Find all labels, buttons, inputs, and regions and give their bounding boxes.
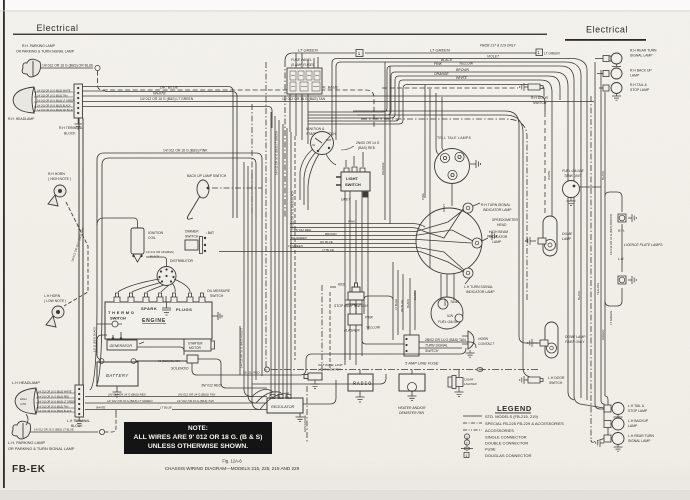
ground: engine top — [162, 296, 171, 315]
svg-text:14/ 012 OR 16 G (B&S) BLACK: 14/ 012 OR 16 G (B&S) BLACK — [291, 191, 295, 230]
flasher — [344, 314, 381, 333]
svg-text:14/ 012 OR 16 G (B&S) TAN: 14/ 012 OR 16 G (B&S) TAN — [282, 97, 326, 101]
svg-text:( HIGH NOTE ): ( HIGH NOTE ) — [48, 177, 71, 181]
ignition and starter switch — [306, 127, 336, 155]
svg-text:2B/02 OR 14 G (B&S) TAN: 2B/02 OR 14 G (B&S) TAN — [425, 338, 466, 342]
R.H. parking lamp labels — [16, 44, 94, 68]
spark plugs — [114, 293, 193, 302]
svg-text:MOTOR: MOTOR — [189, 346, 202, 350]
svg-text:LAMP: LAMP — [628, 424, 638, 428]
svg-text:STOP LAMP SWITCH: STOP LAMP SWITCH — [334, 304, 368, 308]
wire: accessories dash-dot vertical left of stop switch — [322, 285, 330, 380]
svg-text:SWITCH: SWITCH — [549, 381, 563, 385]
distributor — [157, 259, 193, 286]
svg-text:FB/EF ONLY: FB/EF ONLY — [565, 340, 585, 344]
back up lamp switch — [187, 174, 227, 219]
svg-text:LT GREEN: LT GREEN — [430, 48, 450, 53]
svg-text:R.H DOOR: R.H DOOR — [531, 96, 549, 100]
svg-text:DK BLUE: DK BLUE — [320, 240, 334, 244]
ground: regulator — [296, 413, 305, 422]
svg-text:2N/ 012 OR 14 G (B&S) TAN: 2N/ 012 OR 14 G (B&S) TAN — [177, 392, 216, 396]
R.H terminal block — [59, 84, 83, 136]
svg-text:HIGH BEAM: HIGH BEAM — [489, 230, 508, 234]
svg-text:ORANGE: ORANGE — [434, 72, 449, 76]
svg-text:TANK: TANK — [450, 300, 460, 304]
svg-text:BLACK: BLACK — [413, 291, 417, 300]
ground: R.H terminal block — [75, 118, 83, 129]
svg-text:HEAD: HEAD — [497, 223, 507, 227]
svg-text:DK BLUE: DK BLUE — [400, 300, 404, 312]
svg-text:WHITE: WHITE — [547, 171, 551, 180]
svg-text:SWITCH: SWITCH — [533, 101, 547, 105]
starter motor — [184, 339, 215, 351]
svg-text:14/ 012 OR 16 G (B&S) DK BLUE: 14/ 012 OR 16 G (B&S) DK BLUE — [37, 109, 73, 112]
svg-text:REGULATOR: REGULATOR — [271, 405, 295, 409]
svg-text:14/ 012 OR 16 G (B&S) LT GREEN: 14/ 012 OR 16 G (B&S) LT GREEN — [38, 400, 76, 403]
svg-text:5 AMP LINE FUSE: 5 AMP LINE FUSE — [405, 361, 439, 366]
svg-text:DOUGLAS CONNECTOR: DOUGLAS CONNECTOR — [485, 453, 531, 458]
svg-text:YELLOW: YELLOW — [366, 326, 381, 330]
svg-text:WHITE: WHITE — [456, 76, 468, 80]
svg-text:BROWN: BROWN — [456, 68, 470, 72]
wire: line fuse run — [265, 367, 540, 372]
svg-text:SWITCH: SWITCH — [185, 235, 199, 239]
svg-text:14/ 012 OR 16 G (B&S) VIOLET: 14/ 012 OR 16 G (B&S) VIOLET — [240, 328, 244, 368]
svg-text:ACCESSORIES: ACCESSORIES — [485, 428, 514, 433]
svg-text:14/ 012 OR 16 G (B&S) LT GREEN: 14/ 012 OR 16 G (B&S) LT GREEN — [140, 97, 194, 101]
svg-text:1: 1 — [466, 454, 468, 458]
svg-text:ORANGE: ORANGE — [381, 162, 385, 175]
wire: L.H parking lamp feed — [30, 414, 116, 435]
wire: cluster to fuel gauge — [430, 202, 454, 300]
svg-text:LAMP: LAMP — [562, 237, 572, 241]
svg-text:LIGHT: LIGHT — [346, 176, 359, 181]
svg-text:SIGNAL LAMP: SIGNAL LAMP — [630, 54, 653, 58]
svg-text:OR PARKING & TURN SIGNAL LAMP: OR PARKING & TURN SIGNAL LAMP — [8, 446, 75, 451]
svg-text:BLACK: BLACK — [601, 170, 605, 180]
svg-text:CIGAR: CIGAR — [464, 378, 473, 382]
svg-text:INDICATOR LAMP: INDICATOR LAMP — [466, 290, 495, 294]
L.H license plate lamp — [618, 257, 636, 284]
svg-text:PINK: PINK — [348, 220, 356, 224]
svg-text:L.H HORN: L.H HORN — [44, 294, 61, 298]
L.H rear turn signal lamp — [604, 433, 654, 452]
ground: L.H terminal block — [76, 417, 84, 426]
wire: dash band into cluster — [219, 209, 473, 271]
svg-text:BLOCK: BLOCK — [71, 424, 83, 428]
ignition coil — [131, 228, 174, 262]
wire: generator leads — [97, 332, 184, 359]
svg-text:CHASSIS WIRING DIAGRAM—MODEL: CHASSIS WIRING DIAGRAM—MODELS 215, 225, … — [165, 466, 300, 471]
svg-text:14/ 012 OR 16 G (B&S) TAN: 14/ 012 OR 16 G (B&S) TAN — [177, 399, 215, 403]
header Electrical right — [565, 25, 646, 41]
svg-text:R.H.: R.H. — [618, 229, 625, 233]
svg-text:STOP LAMP: STOP LAMP — [630, 88, 650, 92]
R.H license plate lamp — [618, 214, 636, 233]
solenoid — [158, 355, 198, 371]
svg-text:LT GREEN: LT GREEN — [609, 311, 613, 325]
regulator — [267, 395, 303, 414]
svg-text:PINK: PINK — [434, 62, 443, 66]
instrument cluster circle — [416, 203, 497, 278]
wire labels on main runs — [140, 85, 339, 153]
wire: ignition switch feeds — [300, 149, 336, 210]
wire: regulator to right trunk — [303, 380, 336, 442]
svg-text:HEATER AND/OR: HEATER AND/OR — [398, 406, 426, 410]
svg-text:14/ 012 OR 16 G (B&S) LT GREEN: 14/ 012 OR 16 G (B&S) LT GREEN — [107, 399, 153, 403]
svg-text:SWITCH: SWITCH — [110, 316, 126, 321]
svg-text:LT GREEN: LT GREEN — [298, 48, 318, 53]
svg-text:35/ 012 RED: 35/ 012 RED — [243, 371, 260, 375]
svg-text:2N/00 OR 14 G: 2N/00 OR 14 G — [356, 141, 380, 145]
wire: accessory nested corners right of tell-tale — [353, 111, 540, 377]
svg-text:DISTRIBUTOR: DISTRIBUTOR — [170, 259, 193, 263]
svg-text:LT GREEN: LT GREEN — [288, 244, 304, 248]
tell tale lamps — [435, 136, 481, 184]
svg-text:R.H TAIL &: R.H TAIL & — [630, 83, 647, 87]
svg-text:COIL: COIL — [148, 236, 156, 240]
wire: harness drop to ignition area — [290, 53, 447, 224]
R.H rear turn signal lamp — [603, 49, 657, 71]
svg-text:LIGHTER: LIGHTER — [464, 382, 477, 386]
svg-text:VIOLET: VIOLET — [487, 54, 500, 58]
cigar lighter — [448, 370, 477, 397]
Douglas connector 1 — [356, 50, 363, 57]
svg-text:LT BLUE: LT BLUE — [394, 299, 398, 310]
svg-text:3N/ 012 RED: 3N/ 012 RED — [201, 384, 222, 388]
svg-text:GAS GAUGE: GAS GAUGE — [303, 415, 307, 432]
svg-text:Electrical: Electrical — [586, 25, 628, 35]
svg-text:DIMMER: DIMMER — [185, 230, 199, 234]
svg-text:L.H HEADLAMP: L.H HEADLAMP — [12, 381, 40, 385]
svg-text:SOLENOID: SOLENOID — [171, 367, 189, 371]
wire labels: L.H headlamp to block — [38, 390, 76, 413]
svg-text:OR PARKING & TURN SIGNAL LAMP: OR PARKING & TURN SIGNAL LAMP — [16, 50, 75, 54]
svg-text:BLACK: BLACK — [441, 58, 453, 62]
svg-text:L.H. PARKING LAMP: L.H. PARKING LAMP — [8, 440, 46, 445]
svg-text:14/ 012 OR 16G(B&S): 14/ 012 OR 16G(B&S) — [146, 250, 174, 254]
svg-text:TANK UNIT: TANK UNIT — [564, 174, 583, 178]
svg-text:R.H. HEADLAMP: R.H. HEADLAMP — [8, 117, 35, 121]
L.H headlamp — [12, 381, 75, 414]
svg-text:14/ 012 OR 16 G (B&S) TAN: 14/ 012 OR 16 G (B&S) TAN — [37, 94, 68, 97]
header Electrical left — [13, 23, 547, 35]
ground: engine right — [212, 312, 222, 320]
L.H door switch — [520, 376, 565, 385]
svg-text:IGNITION &: IGNITION & — [306, 127, 325, 131]
heater/demister fan — [398, 370, 426, 416]
svg-text:R.H REAR TURN: R.H REAR TURN — [630, 49, 657, 53]
svg-text:TURN SIGNAL: TURN SIGNAL — [425, 344, 448, 348]
svg-text:DOUBLE CONNECTOR: DOUBLE CONNECTOR — [485, 441, 528, 446]
svg-text:TELL TALE LAMPS: TELL TALE LAMPS — [437, 136, 471, 140]
svg-text:STARTER: STARTER — [188, 342, 203, 346]
single connector 3 — [95, 65, 100, 70]
svg-text:NOTE:: NOTE: — [188, 425, 208, 432]
svg-text:Fig. 12A-6: Fig. 12A-6 — [222, 459, 242, 464]
svg-text:(B&S) RED: (B&S) RED — [358, 146, 376, 150]
svg-text:UNLESS OTHERWISE SHOWN.: UNLESS OTHERWISE SHOWN. — [148, 443, 248, 450]
svg-text:SWITCH: SWITCH — [210, 294, 224, 298]
svg-text:2: 2 — [466, 441, 468, 445]
svg-text:BLACK: BLACK — [577, 290, 581, 300]
svg-text:R.H TURN SIGNAL: R.H TURN SIGNAL — [481, 203, 511, 207]
R.H tail and stop lamp — [603, 83, 650, 101]
svg-text:LEGEND: LEGEND — [497, 404, 532, 413]
wire: terminal block upper feed — [82, 90, 105, 92]
wire: solenoid to trunk — [192, 359, 267, 388]
svg-text:DK. BLUE: DK. BLUE — [160, 85, 179, 90]
labels: cluster lamps — [464, 203, 519, 294]
R.H parking lamp symbol — [22, 59, 41, 77]
wire: left trunk joins block — [79, 118, 102, 390]
ground: lamp trunk — [596, 439, 604, 447]
wire: bottom horizontal runs to right — [240, 203, 488, 384]
fuel gauge tank unit — [562, 169, 601, 206]
svg-text:( LOW NOTE ): ( LOW NOTE ) — [44, 299, 66, 303]
svg-text:A: A — [287, 395, 289, 399]
svg-text:STD. MODELS (FB-215, 219): STD. MODELS (FB-215, 219) — [485, 414, 539, 419]
svg-text:R.H. PARKING LAMP: R.H. PARKING LAMP — [22, 44, 56, 48]
svg-text:T H E R M O: T H E R M O — [108, 310, 134, 315]
LEGEND — [461, 404, 564, 458]
svg-text:BLOCK: BLOCK — [64, 132, 76, 136]
inst panel lamp and switch — [304, 363, 343, 389]
license plate lamps loop — [605, 192, 622, 306]
svg-text:LT BLUE: LT BLUE — [160, 405, 172, 409]
wire: top harness bundle — [308, 59, 604, 409]
svg-text:PLUGS: PLUGS — [176, 307, 192, 312]
fuel gauge — [431, 297, 463, 329]
svg-text:WHITE: WHITE — [96, 405, 105, 409]
svg-text:SWITCH: SWITCH — [345, 182, 361, 187]
svg-text:14/ 012 OR 16 G (B&S) LT BLUE: 14/ 012 OR 16 G (B&S) LT BLUE — [34, 428, 74, 432]
svg-text:OIL MESSURE: OIL MESSURE — [207, 289, 231, 293]
labels: dash band — [288, 220, 356, 252]
svg-text:STOP LAMP: STOP LAMP — [628, 409, 648, 413]
battery — [97, 359, 138, 386]
svg-text:Electrical: Electrical — [37, 23, 79, 33]
svg-text:(5 AMP FUSES: (5 AMP FUSES — [291, 63, 315, 67]
svg-text:IGN: IGN — [447, 314, 454, 318]
svg-text:DOME LAMP: DOME LAMP — [565, 335, 586, 339]
svg-text:2N/ 012 OR 14 G (B&S) RED: 2N/ 012 OR 14 G (B&S) RED — [107, 392, 146, 396]
svg-text:RED: RED — [338, 283, 346, 287]
wire: trunk into L.H rear lamps — [591, 396, 608, 442]
svg-text:14/ 012 OR 16 G (B&S) LT GREEN: 14/ 012 OR 16 G (B&S) LT GREEN — [275, 131, 279, 175]
labels: top harness wires — [434, 54, 500, 80]
svg-text:BLACK: BLACK — [406, 299, 410, 308]
svg-text:GREEN: GREEN — [601, 330, 605, 340]
svg-text:SIGNAL LAMP: SIGNAL LAMP — [628, 439, 651, 443]
L.H backup lamp — [604, 418, 649, 430]
svg-text:CONTACT: CONTACT — [478, 342, 495, 346]
svg-text:BROWN: BROWN — [325, 232, 337, 236]
dome lamp upper — [526, 216, 573, 256]
wire: trunk D vertical bundle — [271, 112, 295, 404]
svg-text:INDICATOR LAMP: INDICATOR LAMP — [483, 208, 512, 212]
svg-text:LAMP: LAMP — [492, 240, 502, 244]
wire labels: headlamp to block — [37, 89, 75, 112]
svg-text:L.H.: L.H. — [618, 257, 624, 261]
svg-text:SWITCH: SWITCH — [425, 349, 439, 353]
svg-text:14/ 012 OR 16 G (B&S) BLACK: 14/ 012 OR 16 G (B&S) BLACK — [38, 410, 72, 413]
svg-text:SPEEDOMETER: SPEEDOMETER — [492, 218, 519, 222]
wire: horn diagonal dashed — [64, 202, 88, 306]
top page edge shadow — [0, 10, 690, 13]
wire: light switch drops — [345, 152, 368, 365]
oil pressure switch — [199, 289, 231, 302]
wire: dk blue dashed from connector — [98, 71, 375, 128]
svg-text:PINK: PINK — [365, 316, 374, 320]
svg-text:BATTERY: BATTERY — [106, 373, 129, 378]
wire: inner loop — [102, 158, 256, 218]
svg-text:14/ 012 OR 16 G (B&S) RED: 14/ 012 OR 16 G (B&S) RED — [38, 395, 69, 398]
svg-text:DOME: DOME — [562, 232, 573, 236]
figure caption — [165, 459, 300, 472]
NOTE box — [124, 422, 272, 454]
svg-text:LT BLUE: LT BLUE — [322, 248, 335, 252]
svg-text:LICENCE PLATE LAMPS: LICENCE PLATE LAMPS — [624, 243, 663, 247]
svg-text:FLASHER: FLASHER — [344, 329, 360, 333]
svg-text:FB-EK: FB-EK — [12, 464, 46, 475]
wire: bottom label rows to regulator — [85, 397, 267, 415]
wire: vertical drops cluster to switches — [345, 262, 415, 360]
svg-text:LAMP: LAMP — [630, 74, 640, 78]
svg-text:R.H BACK UP: R.H BACK UP — [630, 69, 652, 73]
svg-text:FUSE PANEL: FUSE PANEL — [291, 58, 312, 62]
wire: big pink loop — [97, 153, 262, 218]
svg-text:35/ 012 RED: 35/ 012 RED — [294, 228, 312, 232]
svg-text:↓BAT: ↓BAT — [206, 231, 214, 235]
svg-text:1: 1 — [466, 435, 468, 439]
L.H horn — [44, 294, 66, 327]
svg-text:ALL WIRES ARE 9' 012 OR 18 G.: ALL WIRES ARE 9' 012 OR 18 G. (B & S) — [134, 434, 263, 441]
wire: center trunk C vertical bundle — [240, 62, 266, 410]
svg-text:FUEL GAUGE: FUEL GAUGE — [562, 169, 585, 173]
engine block — [105, 302, 212, 339]
svg-text:HORN: HORN — [478, 337, 489, 341]
wire: regulator feed arcs — [252, 389, 289, 409]
svg-text:PINK: PINK — [421, 193, 425, 200]
svg-text:ENGINE: ENGINE — [142, 318, 166, 324]
svg-text:14/ 012 OR 16 G (B&S) LT GREEN: 14/ 012 OR 16 G (B&S) LT GREEN — [37, 99, 75, 102]
thermo switch symbol — [97, 321, 122, 327]
wire: battery to solenoid — [136, 360, 187, 362]
generator — [107, 337, 144, 350]
R.H horn — [48, 172, 71, 206]
R.H headlamp symbol — [13, 87, 73, 113]
svg-text:L.H REAR TURN: L.H REAR TURN — [628, 434, 654, 438]
wire: lt green top run — [285, 53, 536, 218]
wire: back up lamp switch dash-dot — [212, 187, 262, 189]
wire: terminal block lower feed — [82, 107, 272, 129]
stop lamp switch — [330, 283, 368, 309]
svg-text:IGNITION: IGNITION — [148, 231, 164, 235]
wire: headlamp to parking lamp hook — [26, 414, 28, 425]
svg-text:LOW: LOW — [20, 402, 26, 406]
svg-text:GREY: GREY — [443, 298, 447, 306]
dimmer switch — [185, 230, 214, 254]
svg-text:SPARK: SPARK — [141, 306, 157, 311]
wire: distributor to plugs — [97, 218, 190, 292]
svg-text:↓ BLACK: ↓ BLACK — [148, 255, 159, 259]
wire: left trunk down from terminal block — [78, 118, 80, 385]
L.H terminal block — [67, 385, 90, 428]
svg-text:R.H HORN: R.H HORN — [48, 172, 65, 176]
fuse panel — [287, 58, 322, 94]
svg-text:14/ 012 OR 16 G (B&S) OR BLUE: 14/ 012 OR 16 G (B&S) OR BLUE — [42, 64, 94, 68]
svg-text:BACK UP LAMP SWITCH: BACK UP LAMP SWITCH — [187, 174, 227, 178]
ground: battery — [113, 386, 122, 397]
R.H back up lamp — [603, 68, 652, 79]
wire: right trunk verticals — [545, 59, 605, 441]
light switch — [336, 167, 370, 202]
dome lamp lower — [528, 322, 586, 358]
wire: white from terminal block — [82, 96, 545, 112]
L.H parking lamp — [8, 421, 75, 451]
svg-text:DEMISTER FAN: DEMISTER FAN — [399, 411, 425, 415]
svg-text:DK GREEN: DK GREEN — [291, 236, 308, 240]
svg-text:GENERATOR: GENERATOR — [110, 344, 133, 348]
wire: lt green / tan from terminal block — [82, 101, 594, 103]
labels: bottom wire rows — [96, 392, 216, 409]
svg-text:14/ 012 OR 16 G (B&S) BLACK: 14/ 012 OR 16 G (B&S) BLACK — [37, 104, 71, 107]
svg-text:SINGLE CONNECTOR: SINGLE CONNECTOR — [485, 435, 527, 440]
L.H tail and stop lamp — [604, 403, 648, 422]
svg-text:WHITE: WHITE — [153, 91, 166, 96]
page left edge line — [3, 0, 5, 488]
svg-text:FUSE: FUSE — [485, 447, 496, 452]
svg-text:14/ 012 OR 16 G (B&S) PINK: 14/ 012 OR 16 G (B&S) PINK — [163, 149, 208, 153]
svg-text:L.H TAIL &: L.H TAIL & — [628, 404, 645, 408]
svg-text:SPECIAL FB-225 FB-229 & AC: SPECIAL FB-225 FB-229 & ACCESSORIES — [485, 421, 564, 426]
radio — [348, 370, 373, 403]
svg-text:LT GREEN: LT GREEN — [544, 52, 560, 56]
svg-text:YELLOW: YELLOW — [596, 283, 600, 295]
wire: tell-tale to cluster — [451, 184, 453, 207]
svg-text:HIGH: HIGH — [20, 397, 27, 401]
svg-text:14/ 012 OR 16 G (B&S) WHITE: 14/ 012 OR 16 G (B&S) WHITE — [37, 89, 71, 92]
R.H door switch — [520, 83, 549, 105]
connector: 1 lt green right — [536, 49, 560, 56]
horn contact — [462, 331, 495, 357]
svg-text:14/ 012 OR 16 G (B&S) TAN: 14/ 012 OR 16 G (B&S) TAN — [38, 405, 69, 408]
wire: R.H parking lamp feed — [40, 67, 93, 69]
svg-text:YELLOW: YELLOW — [459, 62, 474, 66]
svg-text:LIGHT & SWITCH: LIGHT & SWITCH — [318, 368, 342, 372]
svg-text:L.H BACKUP: L.H BACKUP — [628, 419, 649, 423]
svg-text:14/ 012 OR 16 G (B&S) BROWN: 14/ 012 OR 16 G (B&S) BROWN — [609, 214, 613, 255]
svg-text:14/ 012 OR 16 G (B&S) WHITE: 14/ 012 OR 16 G (B&S) WHITE — [38, 390, 72, 393]
svg-text:L.H TURN SIGNAL: L.H TURN SIGNAL — [464, 285, 493, 289]
turn signal switch — [404, 335, 466, 356]
svg-text:INDICATOR: INDICATOR — [489, 235, 508, 239]
svg-text:FUEL GAUG: FUEL GAUG — [438, 320, 458, 324]
svg-text:FB/2B 217 & 219 ONLY: FB/2B 217 & 219 ONLY — [480, 44, 516, 48]
svg-text:L.H DOOR: L.H DOOR — [548, 376, 565, 380]
